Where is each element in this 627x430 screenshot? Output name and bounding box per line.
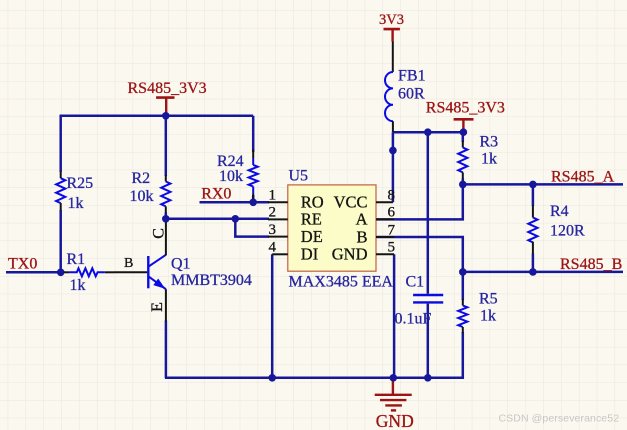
- wire C1 branch bottom: [427, 304, 430, 378]
- svg-text:1: 1: [269, 188, 277, 204]
- svg-text:0.1uF: 0.1uF: [395, 311, 432, 328]
- svg-text:B: B: [356, 227, 367, 246]
- svg-text:10k: 10k: [219, 168, 243, 185]
- wire RS485_B line: [463, 271, 623, 274]
- svg-text:R2: R2: [132, 170, 151, 187]
- wire R24 branch vertical: [252, 116, 255, 203]
- U5 pin 3 DE: [268, 222, 323, 246]
- U5 pin 1 RO: [268, 188, 324, 212]
- power RS485_3V3 left: [128, 80, 207, 114]
- wire RX0 to pin1: [200, 201, 270, 204]
- watermark: [499, 413, 620, 425]
- svg-text:U5: U5: [289, 168, 309, 185]
- svg-text:MAX3485 EEA: MAX3485 EEA: [289, 273, 394, 290]
- svg-text:60R: 60R: [398, 86, 425, 103]
- svg-text:1k: 1k: [481, 151, 497, 168]
- wire GND pin5 drop: [393, 254, 396, 377]
- svg-text:7: 7: [388, 222, 396, 238]
- svg-text:120R: 120R: [550, 223, 585, 240]
- wire R2 branch vertical: [165, 116, 168, 219]
- power RS485_3V3 right: [426, 100, 505, 132]
- U5 pin 8 VCC: [334, 188, 395, 212]
- wire FB1 to VCC pin8: [392, 132, 395, 202]
- svg-text:4: 4: [269, 240, 277, 256]
- ferrite bead FB1: [385, 42, 426, 133]
- svg-text:8: 8: [388, 188, 396, 204]
- node R4 top: [529, 181, 537, 189]
- svg-text:FB1: FB1: [398, 68, 426, 85]
- wire RE-DE tie: [235, 219, 269, 237]
- svg-text:C: C: [150, 228, 167, 239]
- node C1 bottom: [424, 374, 432, 382]
- transistor Q1: [114, 220, 252, 322]
- node RE/DE tie: [232, 215, 240, 223]
- svg-text:A: A: [356, 210, 368, 229]
- resistor R5: [458, 291, 497, 334]
- ground GND: [375, 378, 414, 430]
- wire R4 branch: [532, 184, 535, 272]
- wire pin7 B to RS485_B: [376, 237, 463, 300]
- node RS485_A/R3: [459, 181, 467, 189]
- capacitor C1: [395, 274, 444, 328]
- wire R25 branch vertical: [59, 115, 62, 272]
- svg-text:MMBT3904: MMBT3904: [171, 272, 252, 289]
- svg-text:RS485_B: RS485_B: [560, 256, 622, 273]
- svg-text:C1: C1: [406, 274, 425, 291]
- node rail/R2: [162, 112, 170, 120]
- node pin8 wire: [389, 147, 397, 155]
- svg-text:CSDN @perseverance52: CSDN @perseverance52: [499, 413, 620, 425]
- U5 pin 2 RE: [268, 205, 322, 229]
- wire VCC rail to R3: [393, 131, 464, 134]
- resistor R2: [130, 170, 171, 213]
- wire emitter drop: [165, 321, 168, 378]
- node RS485_B/R5: [459, 268, 467, 276]
- svg-text:R1: R1: [67, 251, 86, 268]
- resistor R24: [217, 149, 258, 199]
- node C1 top tee: [424, 128, 432, 136]
- wire top RS485_3V3 rail: [60, 115, 254, 118]
- net label RS485_B: [560, 256, 622, 273]
- wire C1 branch top: [427, 132, 430, 294]
- svg-text:6: 6: [388, 205, 396, 221]
- svg-text:RS485_A: RS485_A: [551, 168, 615, 185]
- svg-text:RS485_3V3: RS485_3V3: [128, 80, 207, 97]
- resistor R4: [528, 203, 585, 254]
- U5 pin 6 A: [356, 205, 396, 229]
- svg-text:3: 3: [269, 222, 277, 238]
- U5 pin 7 B: [356, 222, 395, 246]
- svg-text:TX0: TX0: [8, 255, 37, 272]
- svg-text:5: 5: [388, 240, 396, 256]
- svg-text:R3: R3: [480, 134, 499, 151]
- svg-text:2: 2: [269, 205, 277, 221]
- net label TX0: [8, 255, 37, 272]
- svg-text:1k: 1k: [480, 308, 496, 325]
- resistor R3: [458, 134, 498, 180]
- resistor R25: [56, 172, 93, 213]
- svg-text:GND: GND: [332, 245, 368, 264]
- node GND/pin5: [390, 374, 398, 382]
- node R4 bottom: [529, 268, 537, 276]
- svg-text:DI: DI: [301, 245, 318, 264]
- node TX0/R25/R1: [57, 269, 65, 277]
- svg-text:1k: 1k: [68, 195, 84, 212]
- wire bottom ground rail: [165, 332, 463, 378]
- wire pin6 A to RS485_A: [376, 184, 463, 219]
- svg-text:RX0: RX0: [201, 186, 231, 203]
- svg-text:10k: 10k: [130, 188, 154, 205]
- node DI/ground rail: [268, 374, 276, 382]
- net label RX0: [201, 186, 231, 203]
- svg-text:DE: DE: [301, 227, 323, 246]
- svg-text:B: B: [124, 256, 133, 271]
- wire collector to RE: [166, 218, 269, 221]
- svg-text:R4: R4: [550, 203, 569, 220]
- wire TX0 row: [6, 271, 65, 274]
- svg-text:R25: R25: [67, 175, 94, 192]
- wire DI drop to ground rail: [271, 254, 274, 377]
- svg-text:3V3: 3V3: [379, 12, 404, 28]
- node R2/collector: [162, 215, 170, 223]
- power 3V3 top: [379, 12, 404, 42]
- net label RS485_A: [551, 168, 615, 185]
- svg-text:R5: R5: [479, 291, 498, 308]
- U5 pin 4 DI: [269, 240, 319, 264]
- IC U5 MAX3485: [288, 168, 394, 291]
- resistor R1: [63, 251, 114, 294]
- svg-text:Q1: Q1: [171, 256, 191, 273]
- svg-text:E: E: [149, 302, 166, 312]
- wire RS485_A line: [463, 183, 623, 186]
- svg-text:RS485_3V3: RS485_3V3: [426, 100, 505, 117]
- node R24/RX0: [249, 199, 257, 207]
- wire R3 branch: [462, 132, 465, 184]
- svg-text:1k: 1k: [70, 277, 86, 294]
- svg-text:GND: GND: [376, 411, 414, 430]
- svg-text:RE: RE: [301, 210, 322, 229]
- node R3 top: [460, 128, 468, 136]
- U5 pin 5 GND: [332, 240, 395, 264]
